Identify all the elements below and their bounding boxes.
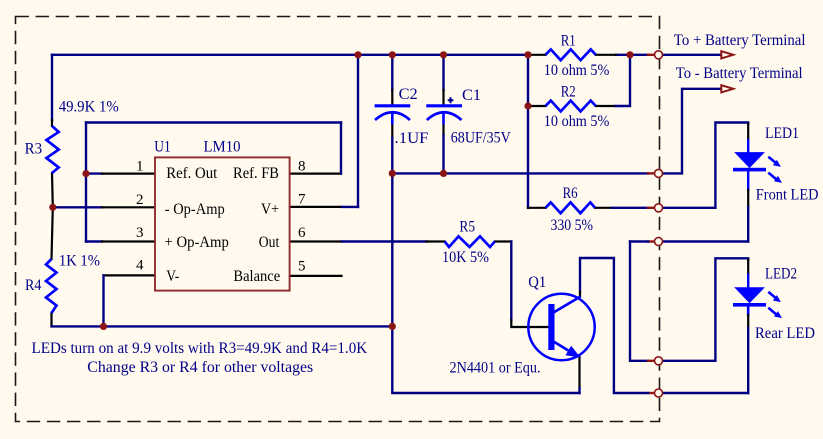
svg-text:Ref. FB: Ref. FB (233, 165, 279, 182)
svg-text:R5: R5 (459, 219, 475, 236)
wire R5 to Q1 base vertical (510, 242, 512, 321)
wire pad P2 to - battery terminal (663, 89, 722, 174)
svg-text:To + Battery Terminal: To + Battery Terminal (674, 32, 806, 49)
junction pin1 / feedback net (82, 170, 89, 177)
wire pin8 riser (340, 123, 342, 174)
resistor R5 zigzag (445, 236, 495, 247)
LED1 symbol (733, 152, 782, 183)
svg-text:LED2: LED2 (765, 266, 797, 283)
junction R3-R4 / pin2 (49, 204, 56, 211)
wire pin8 stub (290, 173, 341, 175)
wire pad P3 to LED1 anode (663, 123, 749, 208)
board outline dashed border (16, 17, 660, 422)
svg-text:Balance: Balance (233, 268, 280, 285)
wire C2 bottom lead (391, 124, 393, 138)
wire pin7 stub (290, 206, 342, 208)
pad P6 LED2 cathode on border (655, 389, 663, 397)
transistor Q1 emitter stroke with arrow (554, 342, 573, 354)
junction C1 bottom / minus rail (440, 170, 447, 177)
junction R2 left lead (524, 102, 531, 109)
svg-text:Change R3 or R4 for other volt: Change R3 or R4 for other voltages (87, 359, 313, 376)
wire feedback vertical x86 (85, 123, 87, 242)
svg-text:10K 5%: 10K 5% (442, 249, 489, 266)
junction R1-R2 left / V+ rail (524, 51, 531, 58)
svg-text:1K 1%: 1K 1% (59, 253, 100, 270)
wire pin3 stub (86, 240, 102, 242)
LED2 light arrow lower (768, 308, 777, 316)
op-amp U1 LM10 body (155, 157, 290, 290)
pad P4 LED1 cathode on border (655, 238, 663, 246)
wire pin6 stub (290, 240, 342, 242)
LED1 light arrow upper (768, 157, 776, 164)
wire LED2 cathode lead (747, 307, 750, 316)
wire pin6 to R5 (342, 240, 427, 242)
svg-text:Ref. Out: Ref. Out (166, 165, 218, 182)
wire ground rail bottom (52, 325, 393, 327)
svg-text:.1UF: .1UF (395, 130, 429, 147)
capacitor C1 symbol (426, 106, 462, 125)
wire V+ top rail (52, 54, 529, 56)
svg-text:10 ohm 5%: 10 ohm 5% (544, 113, 610, 130)
capacitor C2 symbol (375, 106, 411, 125)
pad P1 +battery on border (655, 51, 663, 59)
- battery terminal arrow (721, 85, 733, 92)
wire R2 right lead (596, 105, 616, 107)
svg-text:6: 6 (298, 225, 306, 241)
wire R2 left lead (529, 105, 546, 107)
wire R6 right lead (595, 207, 612, 209)
svg-text:C2: C2 (399, 86, 418, 103)
wire pad P6 to Q1 collector (580, 258, 648, 393)
resistor R6 zigzag (546, 202, 595, 213)
wire feedback horizontal y122 (86, 121, 341, 123)
svg-text:To - Battery Terminal: To - Battery Terminal (676, 65, 803, 82)
svg-text:U1: U1 (154, 138, 171, 155)
svg-text:3: 3 (136, 225, 144, 241)
wire pin4 stub (104, 274, 155, 276)
resistor R1 zigzag (546, 49, 596, 60)
wire Q1 base lead (511, 320, 549, 327)
svg-text:4: 4 (136, 258, 144, 274)
wire R1 right lead (596, 54, 616, 56)
svg-text:V+: V+ (261, 201, 279, 218)
pad P2 -battery on border (655, 169, 663, 177)
svg-text:Rear LED: Rear LED (755, 325, 815, 342)
svg-text:1: 1 (136, 159, 144, 175)
svg-text:C1: C1 (462, 87, 481, 104)
svg-text:68UF/35V: 68UF/35V (451, 129, 511, 146)
junction ground rail / drop to emitter (389, 323, 396, 330)
wire R3 bottom lead (51, 173, 54, 207)
svg-text:7: 7 (298, 192, 306, 208)
transistor Q1 collector stroke (554, 297, 581, 313)
junction pin7 riser / V+ rail (354, 51, 361, 58)
LED2 symbol (733, 287, 782, 318)
wire minus rail y173 (392, 172, 648, 174)
resistor R4 zigzag (46, 259, 57, 313)
transistor Q1 circle (528, 294, 594, 360)
resistor R3 zigzag (46, 126, 58, 173)
wire R6 left lead (528, 207, 546, 209)
svg-text:LM10: LM10 (204, 138, 241, 155)
wire R2 output riser x630 (616, 55, 630, 106)
junction R1-R2 right / V+ rail (626, 51, 633, 58)
svg-text:2: 2 (136, 192, 144, 208)
wire pad P5 to LED2 anode (663, 258, 749, 361)
wire V+ top rail right part (616, 54, 648, 56)
svg-text:+ Op-Amp: + Op-Amp (165, 234, 229, 251)
wire R1 left lead (529, 54, 546, 56)
svg-text:10 ohm 5%: 10 ohm 5% (544, 62, 610, 79)
+ battery terminal arrow (721, 51, 733, 58)
wire ground down to emitter rail (392, 326, 579, 393)
wire R4 top lead (52, 207, 53, 259)
wire ground vertical x392 (391, 173, 393, 326)
LED1 light arrow lower (768, 173, 777, 181)
wire pin2 to R3/R4 junction (53, 206, 102, 208)
junction C2 bottom / minus rail (389, 170, 396, 177)
wire C2 top lead (391, 55, 393, 90)
wire Q1 emitter lead to ground rail (578, 357, 580, 388)
junction C2 / V+ rail (389, 51, 396, 58)
svg-text:V-: V- (166, 268, 179, 285)
wire LED1 anode lead (747, 124, 749, 141)
wire pad P1 to + battery arrow (663, 54, 722, 56)
pad P3 R6 output on border (655, 204, 663, 212)
wire R1/R2 branch vertical x528 (527, 55, 529, 208)
svg-text:Front LED: Front LED (756, 186, 819, 203)
wire LED2 anode lead (747, 260, 749, 275)
wire pin1 stub (86, 172, 102, 174)
svg-text:Q1: Q1 (528, 274, 546, 291)
wire R5 left lead (427, 240, 445, 242)
wire R5 right lead (495, 240, 512, 242)
svg-text:LEDs turn on at 9.9 volts with: LEDs turn on at 9.9 volts with R3=49.9K … (32, 340, 368, 357)
wire x630 vertical to pad P5 (630, 242, 648, 361)
wire stub to pad P1 (648, 54, 655, 56)
wire C1 top lead (442, 55, 444, 90)
svg-text:- Op-Amp: - Op-Amp (165, 201, 225, 218)
svg-text:2N4401 or Equ.: 2N4401 or Equ. (450, 360, 541, 377)
svg-text:LED1: LED1 (765, 125, 799, 142)
wire R3 top lead (51, 55, 53, 120)
wire R4 bottom lead (50, 313, 52, 326)
wire pin5 stub unconnected (290, 275, 342, 277)
svg-text:R1: R1 (561, 33, 576, 50)
svg-text:5: 5 (298, 259, 306, 275)
svg-text:R2: R2 (561, 84, 576, 101)
resistor R2 zigzag (546, 101, 596, 112)
wire pin7 riser to V+ (357, 55, 359, 207)
svg-text:Out: Out (259, 234, 280, 251)
svg-text:R3: R3 (25, 141, 42, 158)
wire R6 to pad P3 (612, 207, 648, 209)
junction pin4 / ground rail (100, 323, 107, 330)
svg-text:330 5%: 330 5% (551, 217, 594, 234)
transistor Q1 base bar (548, 304, 554, 350)
wire LED2 cathode to pad P6 (663, 392, 749, 394)
svg-text:49.9K 1%: 49.9K 1% (59, 99, 119, 116)
wire C1 bottom lead (442, 124, 444, 135)
svg-text:R4: R4 (25, 277, 42, 294)
wire Q1 collector lead black (579, 292, 581, 297)
svg-text:R6: R6 (563, 185, 578, 202)
svg-text:8: 8 (298, 158, 306, 174)
capacitor C1 plus polarity mark (448, 97, 454, 103)
pad P5 LED2 anode on border (655, 357, 663, 365)
wire stub to pad P2 (648, 172, 655, 174)
wire LED1 cathode lead (747, 171, 749, 190)
junction C1 / V+ rail (440, 51, 447, 58)
wire pin4 vertical to ground rail (102, 275, 104, 326)
LED2 light arrow upper (768, 292, 776, 299)
wire LED1 cathode to pad P4 (663, 240, 749, 242)
